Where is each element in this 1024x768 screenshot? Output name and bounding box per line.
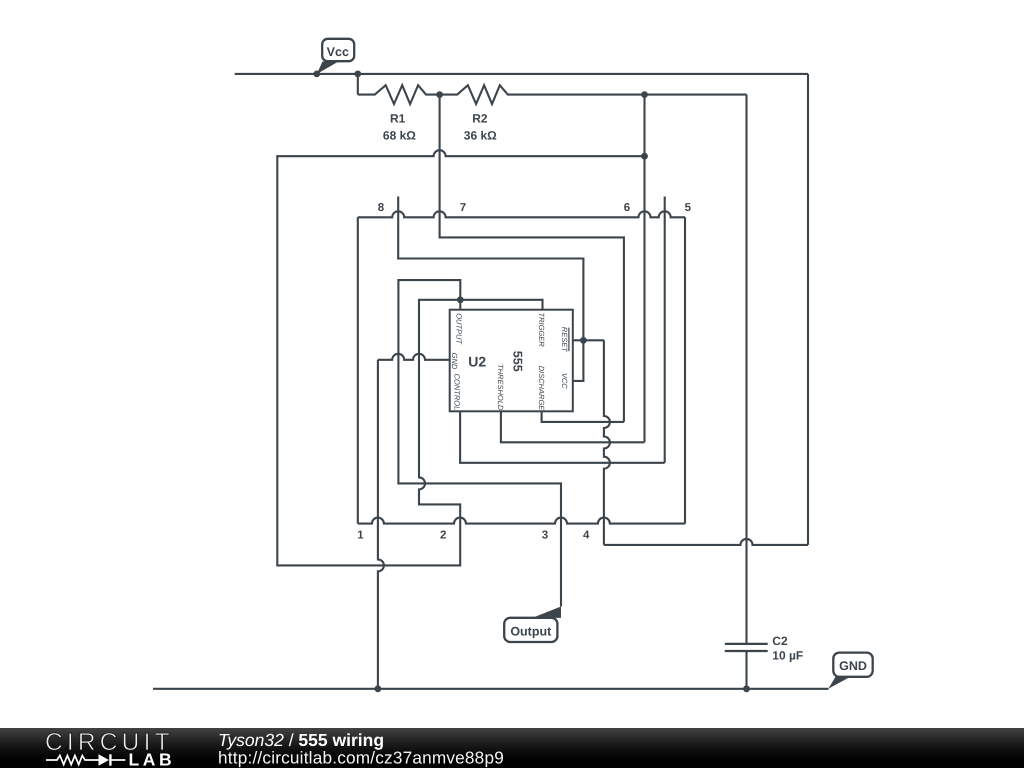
node R2 right lead to pin6 [641, 91, 648, 98]
svg-text:http://circuitlab.com/cz37anmv: http://circuitlab.com/cz37anmve88p9 [218, 748, 504, 768]
node Vcc flag terminal [313, 71, 320, 78]
wire GND vertical down to ground rail (hop over wire E) [378, 360, 384, 689]
wire E: node to pin2 loop to pin6 net (long loop left) [277, 150, 644, 565]
node C2 to bottom rail [743, 685, 750, 692]
node y156 to pin6 wire [641, 153, 648, 160]
svg-text:3: 3 [542, 530, 548, 542]
svg-text:LAB: LAB [129, 750, 176, 768]
wire DIP body bottom edge with hops over pins 1,2,3,4 [358, 518, 685, 524]
node GND to bottom rail [375, 685, 382, 692]
wire drop from top rail to R1 [357, 74, 359, 95]
wire trigger net: OUTPUT node to TRIGGER pin [460, 300, 542, 310]
svg-text:5: 5 [685, 202, 692, 214]
svg-text:TRIGGER: TRIGGER [537, 313, 546, 348]
svg-text:DISCHARGE: DISCHARGE [537, 366, 546, 412]
svg-text:R1: R1 [390, 112, 406, 126]
node top rail to R1 [354, 71, 361, 78]
svg-text:10 µF: 10 µF [772, 649, 803, 663]
capacitor C2 [725, 644, 768, 651]
resistor R1 [358, 85, 440, 104]
svg-text:VCC: VCC [560, 373, 569, 389]
svg-text:2: 2 [440, 530, 446, 542]
wire U2 GND horizontal (hops over wires D and E) [378, 354, 450, 360]
flag GND [828, 677, 850, 689]
op-amp U2 555 body [450, 310, 573, 412]
svg-text:555: 555 [511, 351, 525, 372]
svg-text:THRESHOLD: THRESHOLD [496, 364, 505, 411]
wire U2 CONTROL to pin5 net [460, 411, 665, 463]
wire C2 net lower vertical [745, 652, 747, 689]
svg-text:CONTROL: CONTROL [453, 374, 462, 411]
wire DIP body left edge [357, 217, 359, 523]
wire DIP body right edge [684, 217, 686, 523]
pin label RESET overline [568, 328, 570, 352]
svg-text:U2: U2 [468, 354, 486, 370]
wire y544 from reset net to right vertical (hop over C2 wire) [604, 539, 808, 545]
svg-text:GND: GND [839, 659, 867, 673]
svg-text:1: 1 [357, 530, 364, 542]
svg-text:4: 4 [583, 530, 590, 542]
wire pin 6 vertical from R2 lead down [643, 95, 645, 443]
node RESET/VCC [580, 337, 587, 344]
wire C2 net upper vertical [745, 95, 747, 643]
wire U2 DISCHARGE to pin7 net [542, 411, 624, 422]
svg-text:68 kΩ: 68 kΩ [383, 129, 416, 143]
svg-text:Output: Output [510, 624, 552, 638]
wire pin 8 to U2 RESET/VCC node [398, 197, 583, 341]
resistor R2 [440, 85, 747, 104]
svg-text:R2: R2 [472, 112, 488, 126]
wire right vertical from top rail down [807, 74, 809, 545]
flag Output [532, 607, 561, 618]
svg-text:C2: C2 [772, 634, 788, 648]
svg-text:8: 8 [378, 202, 385, 214]
wire D: OUTPUT node loop to pin3 and Output flag [398, 280, 561, 606]
svg-text:OUTPUT: OUTPUT [454, 313, 463, 345]
wire DIP body top edge with hops over pins 8,7,6,5 [358, 211, 685, 217]
wire U2 THRESHOLD to pin6 net [501, 411, 645, 442]
logo resistor-diode symbol [46, 756, 99, 765]
svg-text:Vcc: Vcc [327, 45, 349, 59]
wire pin 7 to R1-R2 junction and down [440, 95, 624, 422]
svg-text:7: 7 [460, 202, 466, 214]
svg-text:RESET: RESET [560, 327, 569, 353]
wire U2 VCC pin up to RESET node [573, 340, 583, 381]
svg-text:6: 6 [624, 202, 630, 214]
svg-text:GND: GND [450, 353, 459, 370]
flag Vcc [317, 62, 339, 75]
wire ground bottom rail [153, 688, 829, 690]
node R1-R2 junction [436, 91, 443, 98]
svg-text:36 kΩ: 36 kΩ [464, 129, 497, 143]
wire Vcc top rail [235, 73, 808, 75]
wire OUTPUT stub [459, 300, 461, 310]
wire U2 RESET pin to node [573, 339, 604, 341]
wire pin 5 vertical [664, 197, 666, 463]
wire RESET node down to y544 (hops over discharge, threshold, control wires) [604, 340, 610, 545]
node OUTPUT/TRIGGER [457, 296, 464, 303]
